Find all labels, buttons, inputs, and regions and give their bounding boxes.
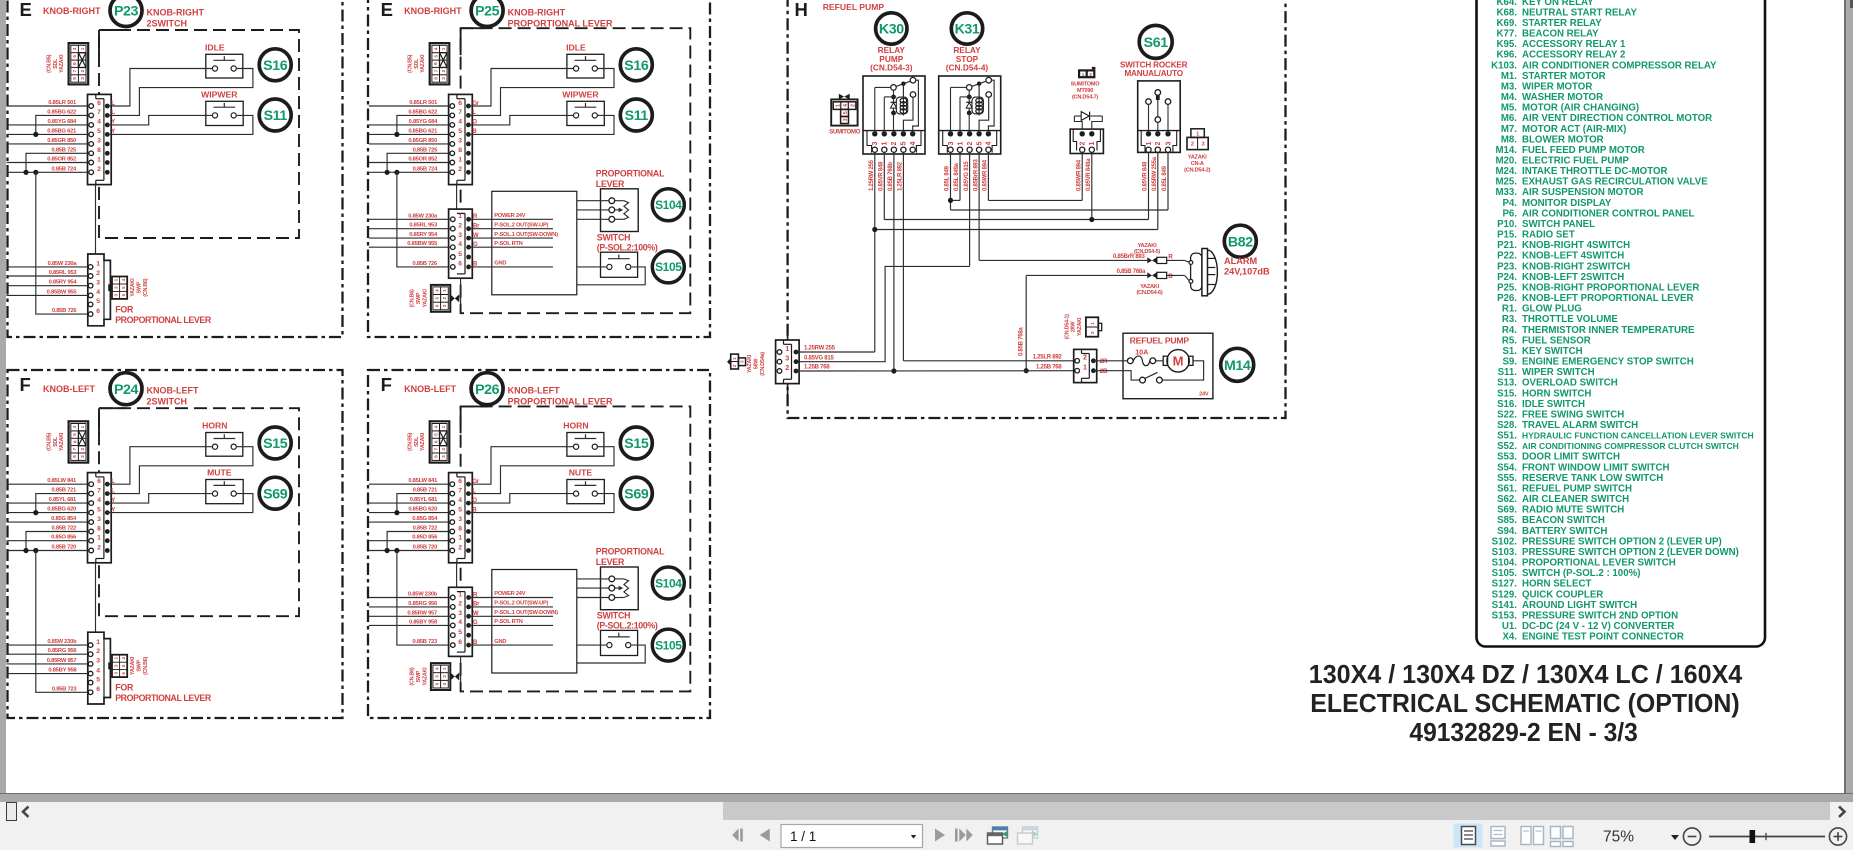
label POWER 24V / P-SOL outputs / GND	[494, 591, 558, 645]
svg-text:OVERLOAD SWITCH: OVERLOAD SWITCH	[1522, 378, 1618, 389]
window corner cap	[1850, 0, 1853, 8]
wire motor loop to switch	[1162, 361, 1203, 380]
svg-text:YAZAKI: YAZAKI	[422, 289, 428, 308]
wire 892 run to CN.D54-1	[903, 360, 1077, 362]
svg-text:GND: GND	[494, 261, 506, 267]
wire S105 return loop	[577, 645, 645, 663]
svg-text:5: 5	[121, 664, 126, 667]
svg-text:3: 3	[96, 658, 100, 665]
drawing title	[1309, 659, 1743, 747]
wire pin 4 to harness left	[369, 124, 450, 126]
wire pin 6 to harness left	[7, 105, 89, 107]
svg-text:3: 3	[442, 304, 447, 307]
MT090 pin numbers 2 1	[1080, 141, 1097, 145]
wire lower pin 4 to harness left	[7, 294, 89, 296]
svg-text:0.85B 723: 0.85B 723	[52, 686, 78, 692]
svg-text:WASHER MOTOR: WASHER MOTOR	[1522, 92, 1603, 103]
wire pin 3 to harness left	[7, 143, 89, 145]
svg-text:GLOW PLUG: GLOW PLUG	[1522, 304, 1582, 315]
svg-text:1: 1	[732, 357, 737, 360]
svg-text:S52.: S52.	[1497, 441, 1517, 452]
svg-text:S51.: S51.	[1497, 431, 1517, 442]
svg-text:10A: 10A	[1135, 347, 1148, 356]
svg-text:KNOB-LEFT PROPORTIONAL LEVER: KNOB-LEFT PROPORTIONAL LEVER	[1522, 293, 1694, 304]
svg-text:0.85W 230b: 0.85W 230b	[408, 592, 438, 598]
CN.D54a pin numbers 1 3 2	[785, 344, 789, 372]
svg-text:S11.: S11.	[1498, 367, 1518, 378]
scrollbar left arrow	[23, 807, 29, 817]
svg-text:7: 7	[433, 448, 439, 451]
svg-text:6: 6	[121, 672, 126, 675]
svg-text:24V,107dB: 24V,107dB	[1224, 267, 1270, 277]
designator circle S61	[1139, 25, 1172, 58]
svg-text:0.85YG 684: 0.85YG 684	[409, 119, 438, 125]
svg-text:INTAKE THROTTLE DC-MOTOR: INTAKE THROTTLE DC-MOTOR	[1522, 166, 1667, 177]
connector icon YAZAKI SDL (CN.B5)	[430, 421, 450, 462]
svg-text:LEVER: LEVER	[596, 557, 625, 567]
wire pin 2 to harness left	[7, 171, 89, 173]
svg-text:FUEL FEED PUMP MOTOR: FUEL FEED PUMP MOTOR	[1522, 145, 1645, 156]
wire tie pin 8 to pin 2	[387, 532, 450, 551]
svg-text:S85.: S85.	[1497, 515, 1517, 526]
svg-text:2: 2	[97, 544, 101, 551]
wire lower pin 3 to harness left	[7, 285, 89, 287]
svg-text:0.85YL 681: 0.85YL 681	[49, 497, 77, 503]
svg-text:B: B	[1168, 273, 1173, 280]
svg-text:ACCESSORY RELAY 2: ACCESSORY RELAY 2	[1522, 50, 1625, 61]
wire lower pin 2 into controller	[469, 228, 553, 230]
nav first-page button	[732, 829, 743, 842]
svg-text:5: 5	[843, 111, 849, 114]
wire pin 3 to harness left	[7, 521, 89, 523]
designator circle S11	[259, 99, 291, 131]
svg-text:B82: B82	[1228, 234, 1253, 250]
svg-text:R: R	[1168, 254, 1173, 261]
svg-text:1: 1	[1090, 322, 1096, 325]
wire tie pin 7 to pin 5	[397, 115, 450, 134]
relay K31 box	[939, 76, 1001, 154]
wire net 768a to alarm B	[1026, 274, 1147, 276]
wire pin 5 to NUTE switch right	[468, 494, 614, 513]
svg-text:2: 2	[967, 141, 974, 145]
relay K30 coil and diode	[875, 82, 908, 134]
svg-text:SWITCH PANEL: SWITCH PANEL	[1522, 219, 1595, 230]
wire lower pin 2 to harness left	[369, 606, 450, 608]
svg-text:0.85OR 852: 0.85OR 852	[47, 157, 76, 163]
svg-text:6: 6	[97, 100, 101, 107]
svg-text:0.85B 726: 0.85B 726	[412, 261, 438, 267]
svg-text:8: 8	[97, 147, 101, 154]
svg-text:3: 3	[80, 77, 86, 80]
wire lower pin 2 to harness left	[369, 228, 450, 230]
CN.D54-1 pin numbers 2 1	[1083, 353, 1087, 372]
pin numbers 6 7 4 5 3 8 1 2	[458, 100, 462, 173]
svg-text:KNOB-RIGHT PROPORTIONAL LEVER: KNOB-RIGHT PROPORTIONAL LEVER	[1522, 283, 1699, 294]
wire 2B into pump	[1093, 371, 1139, 380]
svg-text:AIR VENT DIRECTION CONTROL MOT: AIR VENT DIRECTION CONTROL MOTOR	[1522, 113, 1712, 124]
svg-text:2: 2	[96, 648, 100, 655]
panel P25 border (E KNOB-RIGHT)	[368, 0, 710, 337]
wire tie pin 8 to pin 2	[26, 532, 89, 551]
inner dashed harness box	[461, 406, 691, 691]
designator circle P23	[110, 0, 142, 27]
wire GND to S105	[577, 266, 607, 268]
wire lower pin 1 to harness left	[369, 218, 450, 220]
svg-text:0.85BG 621: 0.85BG 621	[47, 128, 77, 134]
svg-text:KNOB-LEFT: KNOB-LEFT	[404, 384, 456, 394]
svg-text:S16.: S16.	[1497, 399, 1517, 410]
svg-text:1: 1	[441, 425, 447, 428]
svg-text:YAZAKI: YAZAKI	[1077, 317, 1083, 336]
wire 768 bus	[796, 370, 1077, 372]
wire pin 2 ground run to lower connector pin 6	[394, 170, 399, 175]
svg-text:6: 6	[458, 478, 462, 485]
wire pin 4 to WIPWER switch left	[468, 115, 573, 125]
relay K30 box	[863, 76, 925, 154]
refuel pump box M14	[1123, 333, 1213, 399]
svg-text:2: 2	[458, 601, 462, 608]
svg-text:MUTE: MUTE	[207, 468, 232, 478]
wire pin 2 ground run to lower connector pin 6	[33, 170, 38, 175]
svg-text:3: 3	[458, 138, 462, 145]
svg-text:PROPORTIONAL: PROPORTIONAL	[596, 547, 665, 557]
svg-text:K95.: K95.	[1497, 39, 1518, 50]
pin wire-color letters R Br W G B	[473, 592, 480, 646]
svg-text:3: 3	[739, 360, 744, 363]
relay K31 contact wiring	[979, 80, 994, 134]
svg-text:2: 2	[97, 166, 101, 173]
svg-text:1: 1	[1083, 363, 1087, 372]
connector icon YAZAKI SDL (CN.B5)	[430, 43, 450, 84]
svg-text:5: 5	[97, 506, 101, 513]
panel P24 border (F KNOB-LEFT)	[8, 370, 343, 718]
svg-text:M25.: M25.	[1495, 177, 1517, 188]
wire pin 4 to NUTE switch left	[468, 494, 573, 504]
wire lower pin 6 into controller	[469, 266, 553, 268]
svg-text:WIPWER: WIPWER	[201, 90, 238, 100]
svg-text:(P-SOL.2:100%): (P-SOL.2:100%)	[597, 621, 658, 631]
svg-text:P6.: P6.	[1502, 208, 1517, 219]
svg-text:0.85W 230a: 0.85W 230a	[48, 261, 78, 267]
svg-text:1: 1	[80, 47, 86, 50]
pin wire-color letters	[111, 101, 115, 135]
wire 768a vertical drop	[1025, 275, 1027, 370]
svg-text:1: 1	[882, 141, 889, 145]
wire stub upper to lower connector	[95, 563, 97, 632]
svg-text:0.85GR 850: 0.85GR 850	[47, 138, 76, 144]
designator circle S105	[652, 629, 684, 661]
svg-text:0.85B 723: 0.85B 723	[412, 639, 438, 645]
svg-text:0.85B 722: 0.85B 722	[51, 526, 76, 532]
designator circle S11	[620, 99, 652, 131]
svg-text:M7.: M7.	[1501, 124, 1517, 135]
svg-text:7: 7	[72, 448, 78, 451]
svg-text:5: 5	[97, 128, 101, 135]
svg-text:S54.: S54.	[1497, 462, 1517, 473]
svg-text:0.85B 720: 0.85B 720	[51, 545, 76, 551]
svg-text:6: 6	[433, 62, 439, 65]
svg-text:S28.: S28.	[1497, 420, 1517, 431]
connector icon YAZAKI 58W (CN.D54a)	[727, 354, 746, 369]
wire lower pin 1 to harness left	[369, 597, 450, 599]
svg-text:TRAVEL ALARM SWITCH: TRAVEL ALARM SWITCH	[1522, 420, 1638, 431]
svg-text:2: 2	[785, 363, 789, 372]
svg-text:YAZAKI: YAZAKI	[747, 354, 753, 373]
svg-text:YAZAKI: YAZAKI	[59, 54, 65, 73]
svg-text:S61: S61	[1144, 35, 1169, 51]
proportional valve controller box	[492, 191, 577, 294]
wire 1.25RW 255 vertical	[874, 152, 876, 352]
relay K31 contact set	[966, 77, 991, 97]
wire lower pin 1 into controller	[469, 218, 553, 220]
svg-text:M14.: M14.	[1495, 145, 1517, 156]
svg-text:3: 3	[1201, 142, 1204, 148]
label YAZAKI (CN.D54-6)	[1136, 284, 1162, 296]
connector P25 aux 6-pin body	[449, 209, 473, 278]
svg-text:YAZAKI: YAZAKI	[420, 432, 426, 451]
relay K30 contact wiring	[903, 80, 918, 134]
svg-text:P10.: P10.	[1497, 219, 1517, 230]
svg-text:6: 6	[97, 478, 101, 485]
svg-text:2: 2	[1080, 141, 1087, 145]
svg-text:MOTOR ACT (AIR-MIX): MOTOR ACT (AIR-MIX)	[1522, 124, 1626, 135]
label SWITCH ROCKER MANUAL/AUTO	[1120, 60, 1188, 78]
connector P25 8-pin body	[449, 94, 473, 184]
svg-text:(P-SOL.2:100%): (P-SOL.2:100%)	[597, 242, 658, 252]
svg-text:ELECTRIC FUEL PUMP: ELECTRIC FUEL PUMP	[1522, 156, 1629, 167]
svg-text:4: 4	[72, 47, 78, 50]
svg-text:S104: S104	[655, 198, 682, 212]
svg-text:AIR CONDITIONING COMPRESSOR CL: AIR CONDITIONING COMPRESSOR CLUTCH SWITC…	[1522, 441, 1739, 451]
svg-text:0.85B 725: 0.85B 725	[413, 147, 439, 153]
svg-text:PROPORTIONAL LEVER: PROPORTIONAL LEVER	[115, 315, 212, 325]
nav next-page button	[935, 829, 945, 842]
svg-text:8: 8	[433, 455, 439, 458]
svg-text:MOTOR (AIR CHANGING): MOTOR (AIR CHANGING)	[1522, 103, 1639, 114]
wire lower pin 2 to harness left	[7, 275, 89, 277]
svg-text:QUICK COUPLER: QUICK COUPLER	[1522, 589, 1603, 600]
svg-text:4: 4	[433, 425, 439, 428]
svg-text:S62.: S62.	[1497, 494, 1517, 505]
lower pin numbers 1-6	[458, 213, 462, 268]
svg-text:SWP: SWP	[137, 659, 143, 671]
wire stub upper to lower connector	[95, 185, 97, 254]
svg-text:6: 6	[435, 304, 440, 307]
svg-text:3: 3	[458, 516, 462, 523]
svg-text:3: 3	[441, 455, 447, 458]
svg-text:0.85GR 850: 0.85GR 850	[408, 138, 437, 144]
label YAZAKI 58W (CN.D54a)	[747, 352, 766, 376]
svg-text:ACCESSORY RELAY 1: ACCESSORY RELAY 1	[1522, 39, 1626, 50]
svg-text:5: 5	[72, 55, 78, 58]
svg-text:WIPER MOTOR: WIPER MOTOR	[1522, 81, 1592, 92]
panel H border (REFUEL PUMP section)	[788, 0, 1286, 418]
svg-text:P-SOL.1 OUT(SW-DOWN): P-SOL.1 OUT(SW-DOWN)	[494, 610, 558, 616]
svg-text:2: 2	[1090, 331, 1096, 334]
fuse 10A	[1127, 356, 1155, 366]
svg-text:S13.: S13.	[1497, 378, 1517, 389]
svg-text:YAZAKI: YAZAKI	[130, 656, 136, 675]
svg-text:1: 1	[442, 289, 447, 292]
svg-text:ALARM: ALARM	[1224, 256, 1258, 266]
wire pin 5 to WIPWER switch right	[468, 115, 614, 134]
wire 0.85L 849 vertical	[950, 152, 952, 210]
switch S15 (HORN)	[567, 433, 604, 457]
svg-text:0.85RY 954: 0.85RY 954	[49, 280, 78, 286]
svg-text:SDL: SDL	[53, 436, 59, 447]
svg-text:0.85L 849: 0.85L 849	[1162, 165, 1168, 191]
designator circle S69	[620, 477, 652, 509]
connector icon YAZAKI 28W (CN.D54-1)	[1086, 317, 1102, 336]
svg-text:KNOB-LEFT 2SWITCH: KNOB-LEFT 2SWITCH	[1522, 272, 1624, 283]
svg-text:5: 5	[96, 676, 100, 683]
svg-text:1: 1	[458, 213, 462, 220]
designator circle S15	[620, 427, 652, 459]
svg-text:0.85LW 841: 0.85LW 841	[408, 478, 438, 484]
svg-text:3: 3	[948, 141, 955, 145]
wire pin 5 to harness left	[7, 512, 89, 514]
svg-text:7: 7	[72, 69, 78, 72]
svg-text:58W: 58W	[753, 358, 759, 369]
svg-text:0.85O 856: 0.85O 856	[51, 535, 77, 541]
svg-text:RADIO MUTE SWITCH: RADIO MUTE SWITCH	[1522, 505, 1624, 516]
svg-text:PRESSURE SWITCH OPTION 2 (LEVE: PRESSURE SWITCH OPTION 2 (LEVER DOWN)	[1522, 547, 1739, 558]
potentiometer S104 proportional lever	[601, 189, 639, 232]
wire stub below connector	[460, 656, 462, 684]
switch S15 (HORN)	[206, 433, 243, 457]
svg-text:(CN.B5): (CN.B5)	[47, 54, 53, 72]
svg-text:FUEL SENSOR: FUEL SENSOR	[1522, 335, 1591, 346]
page right shadow line	[1844, 0, 1846, 793]
svg-text:SWP: SWP	[416, 292, 422, 304]
connector icon YAZAKI SWP (CN.B6)	[112, 655, 127, 677]
svg-text:4: 4	[96, 289, 100, 296]
svg-text:HYDRAULIC FUNCTION CANCELLATIO: HYDRAULIC FUNCTION CANCELLATION LEVER SW…	[1522, 431, 1754, 441]
label YAZAKI (CN.D54-5)	[1134, 243, 1160, 255]
svg-text:S104: S104	[655, 576, 682, 590]
switch S69 (MUTE)	[206, 480, 243, 504]
svg-text:EXHAUST GAS RECIRCULATION VALV: EXHAUST GAS RECIRCULATION VALVE	[1522, 177, 1708, 188]
svg-text:S1.: S1.	[1502, 346, 1517, 357]
wire lower pin 4 into controller	[469, 246, 553, 248]
svg-text:6: 6	[72, 440, 78, 443]
svg-text:2: 2	[1155, 141, 1162, 145]
wire pin 6 to HORN switch left	[468, 447, 573, 485]
wire pin 4 to harness left	[7, 124, 89, 126]
svg-text:3: 3	[97, 516, 101, 523]
inner dashed harness box	[461, 28, 691, 313]
label SWITCH (P-SOL.2:100%)	[597, 232, 658, 252]
svg-text:S105: S105	[655, 638, 682, 652]
svg-text:1: 1	[1146, 141, 1153, 145]
designator circle S104	[652, 567, 684, 599]
svg-text:P23.: P23.	[1497, 261, 1517, 272]
svg-text:4: 4	[97, 497, 101, 504]
svg-text:0.85VG 815: 0.85VG 815	[804, 355, 834, 361]
wire 0.85VG 815 vertical	[969, 152, 971, 266]
svg-text:0.85B 724: 0.85B 724	[413, 166, 439, 172]
svg-text:0.85L 849: 0.85L 849	[945, 165, 951, 191]
svg-text:3: 3	[458, 232, 462, 239]
svg-text:2: 2	[891, 141, 898, 145]
svg-text:4: 4	[121, 657, 126, 660]
svg-text:HORN: HORN	[202, 421, 227, 431]
svg-text:3: 3	[113, 672, 118, 675]
svg-text:5: 5	[433, 55, 439, 58]
panel P26 border (F KNOB-LEFT)	[368, 370, 710, 718]
svg-text:0.85B 722: 0.85B 722	[413, 526, 438, 532]
wire lower pin 3 to harness left	[369, 615, 450, 617]
svg-text:S11: S11	[264, 108, 288, 124]
wire tie pin 7 to pin 5	[36, 115, 89, 134]
svg-text:0.85BrR 893: 0.85BrR 893	[973, 158, 979, 191]
svg-text:0.85BG 620: 0.85BG 620	[408, 507, 437, 513]
label SWITCH (P-SOL.2:100%)	[597, 611, 658, 631]
svg-text:1: 1	[97, 156, 101, 163]
wire fuse to motor	[1156, 360, 1163, 362]
svg-text:6: 6	[458, 100, 462, 107]
wire lower pin 3 to harness left	[7, 663, 89, 665]
wire lower pin 1 to harness left	[7, 644, 89, 646]
designator circle S16	[620, 49, 652, 81]
svg-text:KNOB-RIGHT 4SWITCH: KNOB-RIGHT 4SWITCH	[1522, 240, 1630, 251]
svg-text:NEUTRAL START RELAY: NEUTRAL START RELAY	[1522, 7, 1638, 18]
designator circle S69	[259, 477, 291, 509]
svg-text:S104.: S104.	[1492, 558, 1518, 569]
svg-text:(CN.B6): (CN.B6)	[410, 667, 416, 685]
svg-text:S69: S69	[624, 486, 649, 502]
svg-text:F: F	[381, 374, 392, 395]
svg-text:24V: 24V	[1199, 391, 1209, 397]
svg-text:3: 3	[113, 293, 118, 296]
svg-text:3: 3	[97, 138, 101, 145]
svg-text:0.85G 854: 0.85G 854	[412, 516, 438, 522]
svg-text:HORN SELECT: HORN SELECT	[1522, 579, 1592, 590]
svg-text:M6.: M6.	[1501, 113, 1517, 124]
svg-text:K103.: K103.	[1491, 60, 1517, 71]
svg-text:0.85B 725: 0.85B 725	[51, 147, 77, 153]
svg-text:S55.: S55.	[1497, 473, 1517, 484]
wire pin 4 to MUTE switch left	[107, 494, 212, 504]
viewer lower band	[0, 793, 1853, 803]
wire 0.85VR 848 vertical	[1148, 152, 1150, 219]
svg-text:S53.: S53.	[1497, 452, 1517, 463]
wire lower pin 4 into controller	[469, 624, 553, 626]
wire pin 5 to harness left	[369, 133, 450, 135]
svg-text:5: 5	[433, 433, 439, 436]
wire 0.85WR 894 vertical	[987, 152, 989, 200]
connector icon SUMITOMO (K30)	[831, 94, 857, 126]
label PROPORTIONAL LEVER	[596, 547, 665, 567]
switch S105 (P-SOL.2 100%)	[601, 252, 638, 277]
toolbar	[0, 821, 1853, 850]
svg-text:2: 2	[80, 448, 86, 451]
svg-text:5: 5	[901, 141, 908, 145]
switch S11 (WIPWER)	[567, 101, 604, 125]
wire lower pin 3 to harness left	[369, 237, 450, 239]
svg-text:4: 4	[843, 104, 849, 107]
wire 0.85RW 255a vertical	[1157, 152, 1159, 229]
zoom slider	[1709, 830, 1825, 843]
svg-text:4: 4	[910, 141, 917, 145]
svg-text:1.25RW 255: 1.25RW 255	[804, 346, 836, 352]
svg-text:DOOR LIMIT SWITCH: DOOR LIMIT SWITCH	[1522, 452, 1620, 463]
svg-text:3: 3	[1165, 141, 1172, 145]
svg-text:P24: P24	[114, 382, 139, 398]
svg-text:YAZAKI: YAZAKI	[1138, 243, 1158, 249]
relay K30 contact set	[891, 77, 916, 97]
svg-text:7: 7	[97, 487, 101, 494]
